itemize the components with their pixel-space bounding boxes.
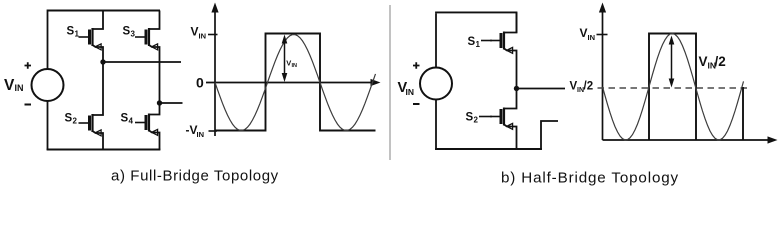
next pulse rising edge b	[742, 87, 744, 140]
svg-text:1: 1	[75, 30, 80, 39]
S2b gate wire extension	[479, 116, 492, 118]
wire: upper output (b)	[517, 88, 566, 90]
voltage source VIN circle	[32, 69, 64, 101]
S2 drain wire	[93, 62, 104, 115]
x-axis arrowhead (b)	[768, 136, 778, 143]
VIN tick (b)	[597, 34, 608, 36]
x-axis (b)	[603, 139, 772, 141]
voltage source VIN circle (b)	[420, 68, 452, 100]
S4 source wire	[149, 131, 160, 151]
svg-text:S: S	[123, 26, 131, 38]
svg-text:2: 2	[474, 116, 479, 125]
svg-text:IN: IN	[406, 87, 415, 97]
svg-text:S: S	[121, 113, 129, 125]
S1 drain wire	[93, 11, 104, 30]
svg-text:S: S	[67, 26, 75, 38]
x-axis arrowhead	[371, 79, 381, 86]
wire: lower output of bridge	[160, 102, 183, 104]
S2b source wire	[504, 125, 517, 150]
svg-text:V: V	[580, 26, 588, 40]
transistor S3	[135, 28, 158, 50]
S2b drain wire	[504, 89, 517, 109]
svg-text:IN: IN	[199, 32, 207, 41]
node A junction dot (S1/S2 midpoint)	[100, 59, 105, 64]
svg-text:S: S	[466, 112, 474, 124]
square wave b	[649, 34, 696, 141]
wire: left leg upper	[47, 12, 49, 70]
S2 source wire	[93, 131, 104, 150]
wire: left leg lower	[47, 101, 49, 150]
wire: top rail	[47, 10, 160, 12]
svg-text:/2: /2	[584, 81, 594, 93]
square wave a	[215, 34, 376, 131]
svg-text:S: S	[65, 113, 73, 125]
wire: bottom rail	[47, 149, 161, 151]
dashed line at VIN/2	[598, 87, 748, 89]
svg-text:IN: IN	[292, 63, 298, 69]
S1b gate wire extension	[481, 40, 492, 42]
svg-text:b) Half-Bridge Topology: b) Half-Bridge Topology	[501, 170, 679, 187]
divider line between a) and b) panels	[389, 5, 391, 160]
wire: upper output of bridge	[103, 61, 181, 63]
S3 source wire	[149, 45, 160, 103]
VIN tick	[208, 34, 218, 36]
transistor S1	[79, 28, 102, 50]
node B junction dot (S3/S4 midpoint)	[157, 100, 162, 105]
svg-text:3: 3	[131, 30, 136, 39]
svg-text:a) Full-Bridge Topology: a) Full-Bridge Topology	[111, 168, 279, 185]
amplitude double arrow a	[284, 40, 286, 77]
transistor S4	[135, 114, 158, 136]
svg-text:IN: IN	[15, 83, 24, 93]
S1b source wire	[504, 49, 517, 89]
S1 source wire	[93, 45, 104, 62]
y-axis	[214, 8, 216, 136]
y-axis (b)	[602, 8, 604, 140]
S3 drain wire	[149, 11, 160, 30]
x-axis	[206, 82, 374, 84]
transistor S2 (b)	[490, 108, 513, 130]
wire: left leg lower (b)	[435, 100, 437, 150]
svg-text:IN: IN	[588, 33, 596, 42]
svg-text:V: V	[699, 54, 708, 69]
S1b drain wire	[504, 12, 517, 32]
wire: left leg upper (b)	[435, 13, 437, 67]
svg-text:1: 1	[476, 40, 481, 49]
minus sign	[25, 104, 32, 106]
wire: bottom output step	[541, 121, 558, 150]
svg-text:V: V	[191, 25, 199, 39]
transistor S1 (b)	[490, 32, 513, 54]
minus sign (b)	[413, 103, 420, 105]
wire: bottom rail (b)	[435, 148, 542, 150]
amplitude double arrow b	[671, 41, 673, 83]
y-axis arrowhead	[211, 3, 218, 13]
wire: S1 drain drop from rail	[516, 12, 518, 33]
transistor S2	[79, 114, 102, 136]
svg-text:2: 2	[73, 117, 78, 126]
-VIN tick	[209, 130, 218, 132]
node M junction dot (S1/S2 midpoint b)	[514, 86, 519, 91]
svg-text:S: S	[468, 36, 476, 48]
svg-text:IN: IN	[197, 130, 205, 139]
svg-text:/2: /2	[715, 54, 726, 69]
svg-text:0: 0	[196, 75, 204, 91]
plus sign	[25, 62, 32, 69]
plus sign (b)	[413, 62, 420, 69]
svg-text:4: 4	[129, 117, 134, 126]
sine wave b	[603, 34, 744, 140]
y-axis arrowhead (b)	[599, 3, 606, 13]
S4 drain wire	[149, 103, 160, 115]
sine wave a	[215, 35, 376, 131]
wire: top rail (b)	[435, 11, 517, 13]
svg-text:V: V	[4, 77, 15, 94]
